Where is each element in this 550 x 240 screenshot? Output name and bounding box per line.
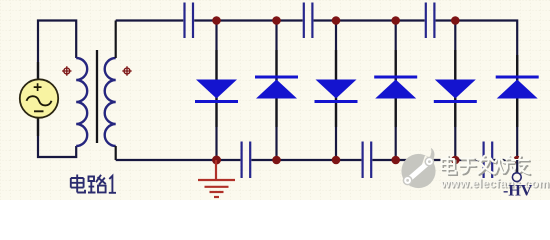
svg-text:www.elecfans.com: www.elecfans.com bbox=[440, 177, 549, 191]
wire bottom-left loop bbox=[38, 114, 76, 157]
node dot top 1 bbox=[212, 16, 221, 25]
watermark logo bbox=[401, 148, 435, 188]
diode D1 bbox=[195, 80, 238, 104]
node dot bottom 3 bbox=[332, 156, 341, 165]
wire vertical branch 1 bbox=[215, 21, 217, 161]
node dot top 4 bbox=[391, 16, 400, 25]
wire bottom rail segment 1 bbox=[116, 159, 241, 161]
watermark text dian zi fa shao you bbox=[442, 156, 531, 176]
label 电路1 (hand-drawn glyphs dian lu 1) bbox=[71, 175, 116, 193]
wire top rail segment 1 bbox=[116, 19, 184, 21]
diode D2 bbox=[255, 76, 298, 99]
wire secondary bottom pin bbox=[115, 146, 117, 160]
diode D6 bbox=[496, 76, 539, 99]
diode D4 bbox=[374, 76, 417, 99]
wire vertical branch 3 bbox=[335, 21, 337, 161]
wire vertical branch 4 bbox=[395, 21, 397, 161]
transformer T1 core bbox=[96, 50, 98, 143]
node dot bottom 1 bbox=[212, 156, 221, 165]
wire bottom rail segment 2 bbox=[251, 159, 361, 161]
wire top rail segment 3 bbox=[314, 19, 425, 21]
wire vertical branch 6 bbox=[516, 60, 518, 160]
node dot top 2 bbox=[272, 16, 281, 25]
node dot bottom 5 bbox=[451, 156, 460, 165]
wire top-left loop bbox=[38, 21, 76, 84]
capacitor C5 bbox=[363, 142, 372, 179]
diode D5 bbox=[434, 80, 477, 104]
capacitor C1 bbox=[185, 3, 194, 39]
node dot top 5 bbox=[451, 16, 460, 25]
node dot bottom 2 bbox=[272, 156, 281, 165]
terminal -HV port bbox=[512, 160, 521, 182]
capacitor C6 bbox=[484, 142, 493, 179]
capacitor C4 bbox=[242, 142, 251, 179]
capacitor C2 bbox=[304, 3, 313, 39]
capacitor C3 bbox=[426, 3, 435, 39]
transformer T1 primary winding bbox=[76, 58, 87, 146]
AC source V1 bbox=[20, 62, 58, 136]
diode D3 bbox=[315, 80, 358, 104]
wire vertical branch 2 bbox=[275, 21, 277, 161]
node dot bottom 4 bbox=[391, 156, 400, 165]
transformer T1 secondary winding bbox=[105, 58, 116, 146]
node dot top 3 bbox=[332, 16, 341, 25]
wire secondary top pin bbox=[115, 21, 117, 59]
wire bottom rail segment 3 bbox=[372, 159, 482, 161]
ground bbox=[198, 160, 235, 197]
watermark url bbox=[440, 177, 550, 192]
wire top rail segment 2 bbox=[194, 19, 302, 21]
phase dot right bbox=[122, 66, 131, 75]
wire top rail segment 4 with right corner bbox=[436, 21, 518, 61]
wire vertical branch 5 bbox=[454, 21, 456, 161]
node dot bottom 6 bbox=[513, 156, 522, 165]
svg-text:-HV: -HV bbox=[503, 183, 533, 200]
wire bottom rail segment 4 bbox=[493, 159, 517, 161]
phase dot left bbox=[62, 66, 71, 75]
